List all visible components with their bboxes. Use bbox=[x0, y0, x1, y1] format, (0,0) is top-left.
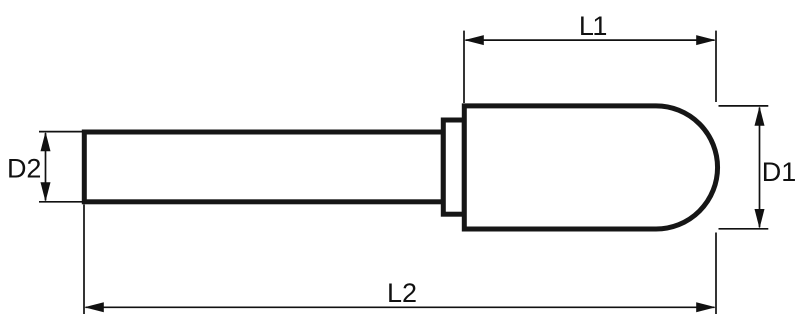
L2 dimension line bbox=[86, 306, 715, 308]
collar (step between shank and head) bbox=[443, 120, 464, 214]
L1 right extension line bbox=[715, 31, 717, 102]
head (cylindrical ball-nose burr body) bbox=[464, 106, 717, 229]
L2 arrowhead right bbox=[696, 302, 716, 312]
svg-text:D1: D1 bbox=[762, 157, 797, 187]
svg-text:L2: L2 bbox=[387, 278, 417, 308]
svg-text:L1: L1 bbox=[579, 11, 607, 41]
D2 dimension line bbox=[45, 133, 47, 201]
D2 arrowhead up bbox=[41, 132, 51, 152]
D2 arrowhead down bbox=[41, 182, 51, 202]
svg-text:D2: D2 bbox=[7, 154, 42, 184]
L1 left extension line bbox=[463, 31, 465, 103]
D1 arrowhead up bbox=[755, 106, 765, 126]
L2 arrowhead left bbox=[84, 302, 104, 312]
D1 arrowhead down bbox=[755, 209, 765, 229]
L1 arrowhead left bbox=[464, 35, 484, 45]
L1 dimension line bbox=[466, 39, 715, 41]
shank (tool shaft rectangle) bbox=[84, 132, 443, 202]
L2 right extension line bbox=[715, 233, 717, 315]
D1 bottom extension line bbox=[719, 228, 769, 230]
L2 left extension line bbox=[83, 205, 85, 315]
D2 top extension line bbox=[39, 131, 83, 133]
D2 bottom extension line bbox=[39, 201, 83, 203]
D1 top extension line bbox=[719, 105, 769, 107]
D1 dimension line bbox=[759, 108, 761, 228]
L1 arrowhead right bbox=[696, 35, 716, 45]
